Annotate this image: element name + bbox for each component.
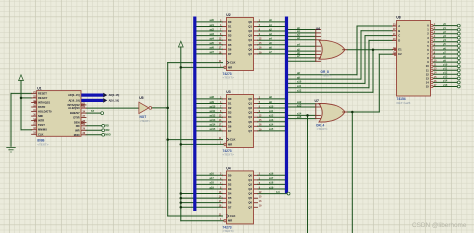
svg-text:READY: READY: [38, 96, 48, 100]
svg-text:CLK: CLK: [38, 132, 44, 136]
svg-text:a10: a10: [297, 80, 302, 84]
svg-text:U2: U2: [226, 13, 230, 17]
svg-text:U6: U6: [316, 27, 320, 31]
svg-text:Q1: Q1: [248, 178, 252, 182]
svg-text:D4: D4: [228, 38, 232, 42]
svg-text:Q2: Q2: [248, 106, 252, 110]
svg-text:Q7: Q7: [248, 52, 252, 56]
svg-text:U7: U7: [315, 99, 319, 103]
svg-text:y12: y12: [443, 71, 448, 75]
svg-text:D3: D3: [228, 111, 232, 115]
svg-text:y13: y13: [443, 75, 448, 79]
svg-text:ad1: ad1: [210, 23, 215, 27]
svg-text:D6: D6: [228, 201, 232, 205]
svg-text:a11: a11: [297, 84, 302, 88]
svg-text:E1: E1: [398, 47, 402, 51]
svg-text:Q6: Q6: [248, 124, 252, 128]
svg-text:TEST: TEST: [38, 123, 45, 127]
svg-text:a19: a19: [269, 185, 274, 189]
svg-text:A: A: [398, 24, 400, 28]
svg-text:Q0: Q0: [248, 97, 252, 101]
svg-text:ad8: ad8: [210, 95, 215, 99]
svg-text:D3: D3: [228, 34, 232, 38]
svg-text:Q7: Q7: [248, 129, 252, 133]
svg-text:15: 15: [426, 85, 429, 89]
svg-text:U4: U4: [226, 166, 230, 170]
svg-text:Q5: Q5: [248, 43, 252, 47]
svg-text:<TEXT>: <TEXT>: [317, 127, 328, 131]
svg-text:ad13: ad13: [210, 118, 216, 122]
svg-text:BHE/S7: BHE/S7: [70, 111, 80, 115]
svg-text:CLK: CLK: [230, 214, 236, 218]
svg-text:D1: D1: [228, 102, 232, 106]
svg-text:D4: D4: [228, 115, 232, 119]
svg-text:ad3: ad3: [210, 32, 215, 36]
svg-text:D7: D7: [228, 52, 232, 56]
svg-text:D5: D5: [228, 120, 232, 124]
svg-text:D1: D1: [228, 25, 232, 29]
svg-text:a15: a15: [297, 115, 302, 119]
svg-text:ad12: ad12: [210, 114, 216, 118]
svg-text:a18: a18: [210, 181, 215, 185]
svg-text:RESET: RESET: [38, 91, 47, 95]
svg-text:ad10: ad10: [210, 104, 216, 108]
svg-text:C: C: [398, 34, 400, 38]
svg-text:3.3: 3.3: [276, 190, 280, 194]
svg-text:D2: D2: [228, 106, 232, 110]
svg-text:D2: D2: [228, 182, 232, 186]
svg-text:AD[0..15]: AD[0..15]: [68, 93, 80, 97]
svg-text:y15: y15: [443, 83, 448, 87]
svg-text:B: B: [398, 29, 400, 33]
svg-text:Q4: Q4: [248, 192, 252, 196]
svg-text:D0: D0: [228, 97, 232, 101]
svg-text:y14: y14: [443, 79, 448, 83]
svg-text:WR: WR: [105, 128, 109, 132]
svg-text:a12: a12: [297, 89, 302, 93]
svg-text:AD[0..15]: AD[0..15]: [109, 94, 120, 97]
svg-text:y10: y10: [443, 63, 448, 67]
svg-text:<TEXT>: <TEXT>: [223, 153, 235, 157]
svg-text:CLK: CLK: [230, 61, 236, 65]
svg-text:U3: U3: [226, 90, 230, 94]
svg-text:WR: WR: [75, 128, 80, 132]
svg-text:CSDN @liberhome: CSDN @liberhome: [412, 222, 467, 229]
svg-text:ad15: ad15: [210, 127, 216, 131]
svg-text:a17: a17: [210, 176, 215, 180]
svg-text:a16: a16: [269, 172, 274, 176]
svg-text:D2: D2: [228, 29, 232, 33]
svg-text:a15: a15: [269, 127, 274, 131]
svg-text:Q2: Q2: [248, 182, 252, 186]
svg-text:MN/MX: MN/MX: [38, 128, 47, 132]
svg-text:RSTR: RSTR: [38, 105, 45, 109]
svg-text:U1: U1: [37, 86, 41, 90]
svg-text:<TEXT>: <TEXT>: [223, 76, 235, 80]
svg-text:Q3: Q3: [248, 187, 252, 191]
svg-text:INTA/QS1: INTA/QS1: [38, 101, 51, 105]
svg-text:ad4: ad4: [210, 37, 215, 41]
svg-text:CLK: CLK: [230, 138, 236, 142]
svg-text:D3: D3: [228, 187, 232, 191]
svg-text:D: D: [398, 38, 400, 42]
svg-text:14: 14: [426, 80, 429, 84]
svg-text:Q1: Q1: [248, 25, 252, 29]
svg-text:ad5: ad5: [210, 41, 215, 45]
svg-text:10: 10: [426, 64, 429, 68]
svg-text:ad11: ad11: [210, 109, 216, 113]
svg-text:A[16..19]: A[16..19]: [68, 98, 79, 102]
svg-text:M/IO: M/IO: [105, 133, 111, 137]
svg-text:D6: D6: [228, 124, 232, 128]
svg-text:INTR: INTR: [38, 119, 44, 123]
svg-text:ad9: ad9: [210, 100, 215, 104]
svg-text:<TEXT>: <TEXT>: [140, 119, 151, 123]
svg-text:a17: a17: [269, 176, 274, 180]
svg-text:D4: D4: [228, 192, 232, 196]
svg-text:a13: a13: [269, 118, 274, 122]
svg-text:ad0: ad0: [210, 18, 215, 22]
svg-text:ALE/QS0: ALE/QS0: [68, 106, 80, 110]
svg-text:D0: D0: [228, 20, 232, 24]
svg-text:HOLD/GT0: HOLD/GT0: [38, 110, 52, 114]
svg-text:NMI: NMI: [38, 114, 43, 118]
svg-text:Q7: Q7: [248, 205, 252, 209]
svg-text:y11: y11: [443, 67, 448, 71]
svg-text:Q5: Q5: [248, 196, 252, 200]
svg-text:D5: D5: [228, 43, 232, 47]
svg-text:Q3: Q3: [248, 111, 252, 115]
svg-text:MR: MR: [228, 65, 232, 69]
svg-text:Q0: Q0: [248, 20, 252, 24]
svg-text:a11: a11: [269, 109, 274, 113]
svg-text:RD: RD: [105, 124, 109, 128]
svg-text:U8: U8: [396, 16, 400, 20]
svg-text:NET=\a26: NET=\a26: [397, 101, 411, 105]
svg-text:Q3: Q3: [248, 34, 252, 38]
svg-text:<TEXT>: <TEXT>: [223, 229, 235, 233]
svg-text:MR: MR: [228, 219, 232, 223]
svg-text:Q5: Q5: [248, 120, 252, 124]
svg-text:E2: E2: [398, 52, 402, 56]
svg-text:U5: U5: [139, 96, 143, 100]
svg-text:RD: RD: [76, 124, 80, 128]
svg-text:D5: D5: [228, 196, 232, 200]
svg-text:Q6: Q6: [248, 47, 252, 51]
svg-text:13: 13: [426, 76, 429, 80]
svg-text:D7: D7: [228, 129, 232, 133]
svg-text:D6: D6: [228, 47, 232, 51]
svg-text:D0: D0: [228, 173, 232, 177]
svg-text:12: 12: [426, 72, 429, 76]
svg-text:Q2: Q2: [248, 29, 252, 33]
svg-text:a10: a10: [269, 104, 274, 108]
svg-text:a12: a12: [269, 114, 274, 118]
svg-text:DT/R: DT/R: [73, 116, 79, 120]
svg-text:MR: MR: [228, 142, 232, 146]
svg-text:a13: a13: [297, 103, 302, 107]
svg-text:Q4: Q4: [248, 38, 252, 42]
svg-text:A[16..19]: A[16..19]: [109, 99, 119, 102]
svg-text:D7: D7: [228, 205, 232, 209]
svg-text:ad14: ad14: [210, 123, 216, 127]
svg-text:Q4: Q4: [248, 115, 252, 119]
svg-text:a19: a19: [210, 185, 215, 189]
svg-text:ad2: ad2: [210, 27, 215, 31]
svg-text:Q6: Q6: [248, 201, 252, 205]
svg-text:a14: a14: [269, 123, 274, 127]
svg-text:Q1: Q1: [248, 102, 252, 106]
svg-text:ad7: ad7: [210, 50, 215, 54]
svg-text:<TEXT>: <TEXT>: [37, 142, 49, 146]
svg-text:ad6: ad6: [210, 46, 215, 50]
svg-text:Q0: Q0: [248, 173, 252, 177]
svg-text:<TEXT>: <TEXT>: [321, 73, 332, 77]
svg-text:a18: a18: [269, 181, 274, 185]
svg-text:D1: D1: [228, 178, 232, 182]
svg-text:a16: a16: [210, 172, 215, 176]
svg-text:M/IO: M/IO: [74, 133, 80, 137]
